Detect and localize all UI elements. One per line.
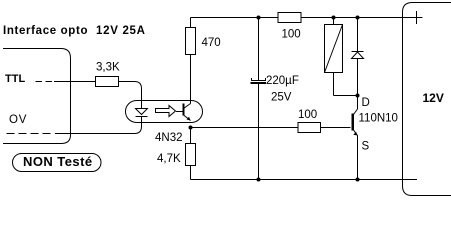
svg-text:12V 25A: 12V 25A — [96, 25, 146, 37]
transistor Q1 110N10 — [357, 96, 359, 110]
top rail — [191, 17, 423, 19]
wire emitter node to gate resistor — [191, 127, 299, 129]
opto light arrow — [156, 106, 176, 117]
left input block outline — [3, 49, 71, 144]
svg-text:3,3K: 3,3K — [96, 62, 120, 74]
node D drain junction — [356, 94, 360, 98]
opto phototransistor — [183, 104, 185, 116]
bottom rail — [191, 179, 418, 181]
svg-text:110N10: 110N10 — [359, 113, 398, 125]
wire 470 to top rail — [190, 18, 192, 28]
opto LED — [136, 109, 148, 115]
svg-text:4,7K: 4,7K — [157, 153, 181, 165]
wire opto collector up to 470 — [190, 55, 192, 104]
svg-text:NON Testé: NON Testé — [23, 154, 93, 169]
svg-text:100: 100 — [282, 29, 301, 41]
svg-text:4N32: 4N32 — [155, 132, 183, 144]
wire gate resistor to gate — [321, 127, 351, 129]
optocoupler U1 4N32 body — [126, 101, 203, 123]
wire 3,3K to opto anode (corner down) — [119, 82, 142, 109]
svg-text:Interface opto: Interface opto — [3, 25, 88, 37]
node emitter junction — [189, 126, 193, 130]
svg-text:TTL: TTL — [5, 73, 25, 85]
relay coil K1 — [333, 18, 335, 25]
plus terminal — [416, 11, 418, 24]
svg-text:220µF: 220µF — [266, 75, 299, 87]
wire TTL to R 3,3K — [54, 81, 96, 83]
node cap-bottomrail — [257, 178, 261, 182]
resistor R 3,3K — [96, 77, 119, 87]
node source-bottomrail — [356, 178, 360, 182]
svg-text:OV: OV — [9, 114, 27, 126]
diode D1 flyback — [357, 18, 359, 52]
node cap-toprail — [257, 16, 261, 20]
svg-text:100: 100 — [298, 109, 317, 121]
svg-text:470: 470 — [202, 37, 221, 49]
resistor R 4,7K — [190, 128, 192, 145]
svg-text:12V: 12V — [423, 91, 444, 105]
capacitor C 220uF — [252, 78, 266, 81]
battery 12V box — [403, 3, 451, 196]
resistor R 470 — [186, 28, 196, 55]
resistor R 100 gate — [298, 123, 321, 133]
wire TTL dashed — [36, 81, 53, 83]
resistor R 100 top — [278, 13, 301, 23]
svg-text:D: D — [362, 97, 370, 109]
wire cap vertical — [258, 18, 260, 81]
NON Teste oval — [13, 154, 102, 172]
svg-text:S: S — [362, 141, 370, 153]
wire OV to opto cathode (corner up) — [55, 117, 142, 134]
svg-text:25V: 25V — [271, 92, 292, 104]
wire OV dashed — [7, 133, 52, 135]
